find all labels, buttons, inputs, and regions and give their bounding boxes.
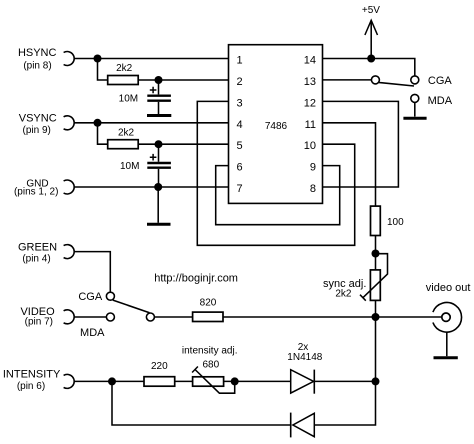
wire junction down to R2 (98, 123, 108, 144)
svg-text:(pin 9): (pin 9) (23, 125, 51, 136)
power +5V (362, 5, 380, 58)
wire IC pin 11 down to R3 (323, 123, 376, 206)
node junction HSYNC (94, 55, 102, 63)
node junction R2/C2 (155, 140, 163, 148)
ground bar under C1 (147, 114, 171, 117)
wire junction down to C1 (158, 80, 160, 94)
svg-text:5: 5 (237, 140, 243, 152)
potentiometer VR2 intensity adj. 680 (182, 346, 238, 394)
svg-text:7486: 7486 (265, 121, 288, 132)
svg-text:13: 13 (304, 76, 316, 88)
svg-text:(pins 1, 2): (pins 1, 2) (14, 186, 58, 197)
svg-text:video out: video out (426, 282, 471, 294)
svg-text:4: 4 (237, 119, 243, 131)
diode D1 1N4148 (287, 342, 322, 394)
resistor R1 2k2 (108, 63, 139, 84)
node junction D1 / video feed (372, 377, 380, 385)
svg-text:2k2: 2k2 (116, 63, 133, 74)
svg-text:12: 12 (304, 97, 316, 109)
connector INTENSITY (pin 6) (3, 368, 74, 392)
svg-text:2k2: 2k2 (118, 127, 135, 138)
wire R2 to IC pin 5 (138, 143, 228, 145)
svg-text:GREEN: GREEN (18, 241, 57, 253)
resistor R5 220 (144, 361, 175, 386)
svg-text:(pin 8): (pin 8) (23, 61, 51, 72)
wire MDA contact to ground (414, 103, 416, 117)
ground bar under MDA contact (403, 117, 426, 120)
connector VSYNC (pin 9) (19, 113, 74, 136)
wire R3 to sync pot (375, 236, 377, 270)
resistor R2 2k2 (108, 127, 139, 148)
wire VR2 to D1 (224, 380, 291, 382)
svg-text:3: 3 (237, 97, 243, 109)
node junction R1/C1 (155, 76, 163, 84)
capacitor C2 10M (120, 154, 171, 187)
node junction INTENSITY (108, 377, 116, 385)
wire SW2 common to R4 (155, 316, 193, 318)
wire junction down to R1 (98, 59, 108, 81)
diode D2 1N4148 (291, 413, 315, 438)
svg-text:6: 6 (237, 162, 243, 174)
svg-text:820: 820 (200, 297, 217, 308)
svg-text:(pin 4): (pin 4) (22, 254, 50, 265)
wire VSYNC to IC pin 4 (74, 122, 229, 124)
IC U1 7486 (229, 45, 323, 204)
svg-text:7: 7 (237, 183, 243, 195)
resistor R4 820 (193, 297, 223, 321)
wire IC pin 13 to switch common (323, 79, 372, 81)
switch SW2 lever (113, 300, 150, 313)
resistor R3 100 (371, 206, 405, 235)
node junction R3/wiper (372, 250, 380, 258)
ground bar under video out (434, 356, 458, 359)
svg-text:2k2: 2k2 (335, 288, 352, 299)
wire IC pin 14 to switch CGA contact (323, 59, 415, 76)
svg-text:VSYNC: VSYNC (19, 113, 57, 125)
capacitor C1 10M (119, 87, 171, 114)
svg-text:MDA: MDA (80, 327, 105, 339)
svg-text:(pin 7): (pin 7) (25, 317, 53, 328)
wire VIDEO to switch MDA contact (74, 316, 106, 318)
svg-text:100: 100 (387, 217, 404, 228)
node junction GND/C2 (154, 183, 162, 191)
svg-text:220: 220 (151, 361, 168, 372)
switch SW1 CGA contact (411, 76, 419, 84)
connector VIDEO (pin 7) (20, 306, 74, 328)
wire sync pot to video line (375, 300, 377, 317)
svg-text:14: 14 (304, 55, 316, 67)
wire R4 to video out (223, 316, 441, 318)
switch SW1 lever (379, 83, 414, 87)
switch SW1 MDA contact (411, 94, 419, 102)
switch SW1 common contact (371, 76, 379, 84)
svg-text:INTENSITY: INTENSITY (3, 368, 61, 380)
svg-text:10: 10 (304, 140, 316, 152)
wire R1 to IC pin 2 (138, 79, 228, 81)
node junction video line / sync pot (372, 313, 380, 321)
switch SW2 MDA contact (106, 313, 114, 321)
svg-text:2: 2 (237, 76, 243, 88)
svg-text:HSYNC: HSYNC (18, 47, 57, 59)
wire IC pin 6 to pin 9 loop (216, 166, 340, 225)
connector HSYNC (pin 8) (18, 47, 74, 71)
svg-text:10M: 10M (120, 161, 139, 172)
wire junction down to C2 (158, 144, 160, 162)
wire GREEN to switch CGA contact (74, 252, 110, 292)
svg-text:680: 680 (202, 359, 219, 370)
wire GND junction down to ground (157, 187, 159, 223)
svg-text:11: 11 (305, 119, 316, 131)
svg-text:9: 9 (310, 162, 316, 174)
connector J1 video out (426, 282, 471, 356)
svg-text:10M: 10M (119, 94, 138, 105)
connector GREEN (pin 4) (18, 241, 74, 264)
node junction VR2 wiper (231, 377, 239, 385)
connector GND (pins 1, 2) (14, 178, 74, 197)
wire INTENSITY to R5 (74, 380, 144, 382)
node junction +5V / pin 14 (367, 55, 375, 63)
svg-text:(pin 6): (pin 6) (17, 381, 45, 392)
switch SW2 CGA contact (106, 292, 114, 300)
svg-text:http://boginjr.com: http://boginjr.com (154, 273, 238, 285)
wire IC pin 3 to pin 10 loop (197, 101, 354, 245)
potentiometer VR1 sync adj. 2k2 (323, 254, 388, 301)
wire HSYNC to IC pin 1 (74, 58, 229, 60)
ground bar under GND (147, 223, 171, 226)
svg-text:intensity adj.: intensity adj. (182, 346, 238, 357)
wire R5 to VR2 (175, 380, 193, 382)
svg-text:CGA: CGA (78, 291, 103, 303)
svg-text:CGA: CGA (428, 75, 453, 87)
svg-text:1N4148: 1N4148 (287, 352, 322, 363)
svg-text:+5V: +5V (362, 5, 380, 16)
wire D1 to video line junction (314, 380, 375, 382)
svg-text:MDA: MDA (428, 95, 453, 107)
wire IC pin 12 to pin 8 (323, 101, 399, 187)
switch SW2 common contact (146, 313, 154, 321)
svg-text:1: 1 (237, 55, 243, 67)
node junction VSYNC (94, 119, 102, 127)
wire D2 back to INTENSITY junction (112, 381, 291, 425)
wire GND to IC pin 7 (74, 186, 229, 188)
wire video junction down to D2 (314, 317, 375, 425)
svg-text:8: 8 (310, 183, 316, 195)
